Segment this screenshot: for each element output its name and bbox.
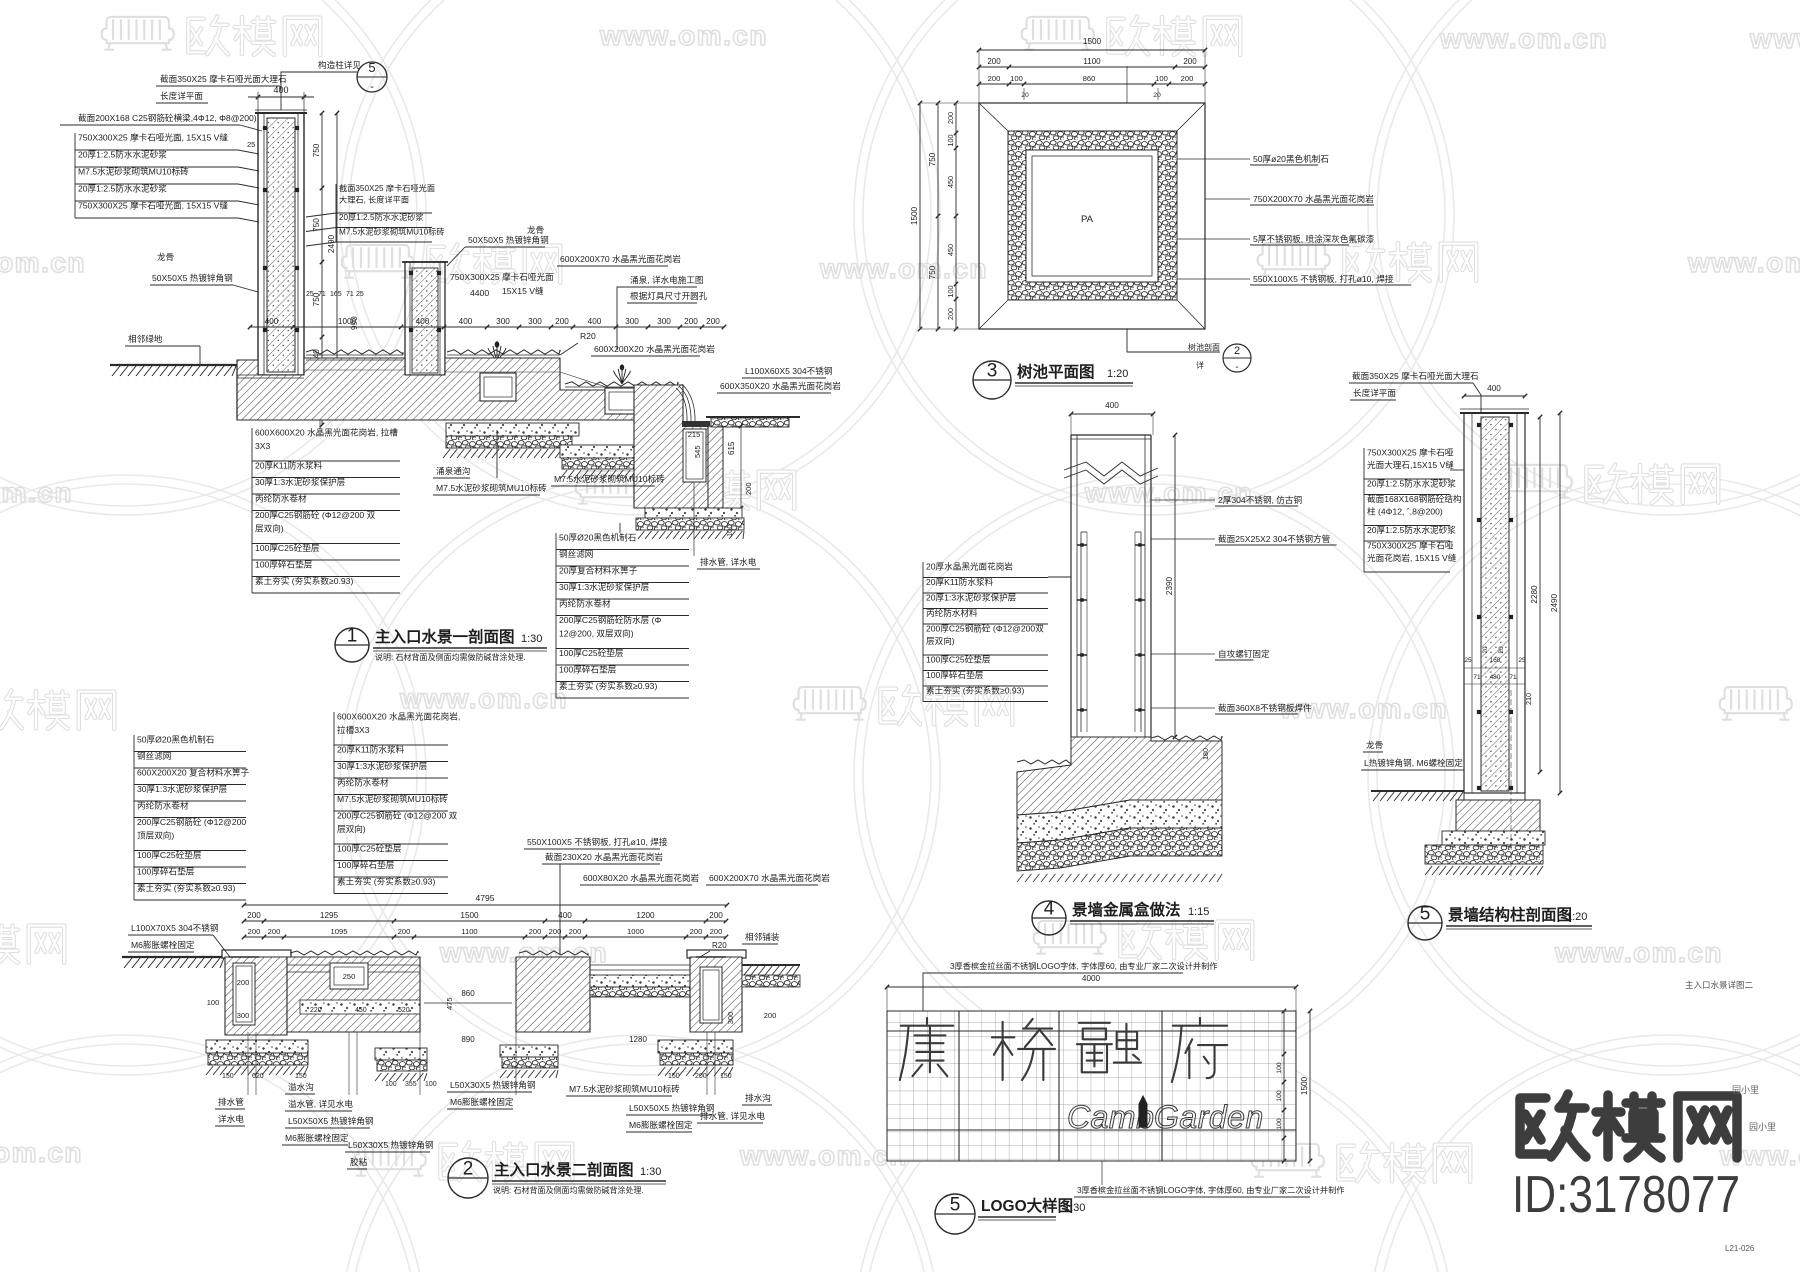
svg-text:15X15 V缝: 15X15 V缝 [502, 285, 544, 296]
svg-text:300: 300 [726, 1012, 735, 1025]
svg-text:180: 180 [1201, 748, 1210, 760]
detail-3 title [973, 361, 1011, 399]
svg-text:100: 100 [1155, 74, 1168, 83]
detail-1 foundation pad 1 concrete [446, 423, 579, 436]
svg-text:4000: 4000 [1082, 974, 1101, 983]
svg-text:480: 480 [1490, 674, 1501, 681]
logo grid panel [887, 1011, 1296, 1161]
detail-1 basin inner lines [306, 357, 405, 359]
svg-text:溢水沟: 溢水沟 [288, 1081, 314, 1092]
detail-3 section circle 2 [1223, 344, 1251, 372]
svg-text:150: 150 [222, 1073, 234, 1080]
svg-text:ID:3178077: ID:3178077 [1512, 1166, 1740, 1224]
svg-text:说明: 石材背面及侧面均需做防碱背涂处理.: 说明: 石材背面及侧面均需做防碱背涂处理. [493, 1185, 644, 1195]
svg-text:M7.5水泥砂浆砌筑MU10标砖: M7.5水泥砂浆砌筑MU10标砖 [436, 482, 547, 493]
watermark logos row 1 [102, 17, 174, 50]
svg-text:顶层双向): 顶层双向) [137, 830, 174, 841]
svg-text:园小里: 园小里 [1749, 1122, 1776, 1132]
svg-text:园小里: 园小里 [1732, 1085, 1759, 1095]
svg-text:www.om.cn: www.om.cn [819, 253, 988, 284]
detail-1 foundation pad 2 concrete [560, 445, 635, 458]
svg-text:景墙结构柱剖面图: 景墙结构柱剖面图 [1448, 905, 1572, 924]
svg-text:主入口水景一剖面图: 主入口水景一剖面图 [375, 627, 515, 646]
svg-text:2: 2 [1234, 345, 1240, 357]
detail-2 foundation pad C [500, 1045, 558, 1057]
detail-2 left drain channel [233, 963, 255, 1025]
svg-text:5厚不锈钢板, 喷涂深灰色氟碳漆: 5厚不锈钢板, 喷涂深灰色氟碳漆 [1253, 233, 1375, 244]
svg-text:450: 450 [355, 1007, 367, 1014]
svg-text:400: 400 [265, 317, 279, 326]
svg-text:200: 200 [247, 911, 261, 920]
svg-text:50厚ø20黑色机制石: 50厚ø20黑色机制石 [1253, 153, 1329, 164]
svg-text:200: 200 [987, 57, 1001, 66]
svg-text:www.om.cn: www.om.cn [1554, 937, 1723, 968]
svg-text:20: 20 [1153, 92, 1161, 99]
svg-text:www.om.cn: www.om.cn [1439, 23, 1608, 54]
svg-text:截面200X168 C25钢筋砼横梁,4Φ12, Φ8@2: 截面200X168 C25钢筋砼横梁,4Φ12, Φ8@200) [78, 112, 257, 123]
detail-4 foundation concrete band [1017, 800, 1222, 843]
svg-text:说明: 石材背面及侧面均需做防碱背涂处理.: 说明: 石材背面及侧面均需做防碱背涂处理. [375, 652, 526, 662]
svg-text:200: 200 [555, 317, 569, 326]
svg-text:1200: 1200 [636, 911, 655, 920]
svg-text:层双向): 层双向) [255, 523, 284, 534]
detail-1 waterfall curves [676, 384, 695, 424]
detail-3 pebble ring band [1008, 131, 1177, 300]
svg-text:100厚C25砼垫层: 100厚C25砼垫层 [337, 843, 402, 854]
detail-1 main dimension row [250, 326, 724, 328]
svg-text:600X600X20 水晶黑光面花岗岩, 拉槽: 600X600X20 水晶黑光面花岗岩, 拉槽 [255, 427, 398, 438]
svg-text:200: 200 [549, 927, 562, 936]
svg-text:LOGO大样图: LOGO大样图 [981, 1196, 1073, 1215]
svg-text:300: 300 [528, 317, 542, 326]
detail-1 fountain jet right [613, 368, 630, 384]
detail-4 right leaders [1151, 499, 1215, 501]
svg-text:2280: 2280 [1530, 585, 1539, 604]
svg-text:M6膨胀螺栓固定: M6膨胀螺栓固定 [629, 1119, 693, 1130]
svg-text:100厚C25砼垫层: 100厚C25砼垫层 [255, 542, 320, 553]
detail-4 inner panel lines [1080, 532, 1082, 732]
detail-1 ground line left [110, 364, 237, 366]
detail-5 core anchor markers [1477, 423, 1481, 427]
svg-text:1280: 1280 [629, 1035, 647, 1044]
detail-2 right slab [516, 957, 590, 1032]
site watermark big logo OMW [1520, 1094, 1586, 1157]
svg-text:400: 400 [1105, 401, 1119, 410]
detail-2 foundation pad D [658, 1040, 733, 1053]
svg-text:600X200X70 水晶黑光面花岗岩: 600X200X70 水晶黑光面花岗岩 [709, 872, 830, 883]
svg-text:200厚C25钢筋砼 (Φ12@200双: 200厚C25钢筋砼 (Φ12@200双 [926, 623, 1044, 634]
svg-text:750X300X25 摩卡石哑: 750X300X25 摩卡石哑 [1367, 447, 1454, 458]
logo title [935, 1194, 975, 1234]
svg-text:5: 5 [950, 1195, 961, 1216]
detail-3 left dim row2 [937, 103, 939, 329]
svg-text:Garden: Garden [1154, 1099, 1264, 1135]
svg-text:1500: 1500 [1083, 37, 1102, 46]
svg-text:200: 200 [684, 317, 698, 326]
svg-text:150: 150 [668, 1073, 680, 1080]
svg-text:丙纶防水卷材: 丙纶防水卷材 [559, 598, 611, 609]
detail-1 column wall A stone cladding lines [263, 113, 265, 375]
detail-2 title [448, 1158, 488, 1198]
detail-1 ref circle 5 [357, 62, 387, 92]
detail-1 small sump right [605, 388, 641, 414]
svg-text:355: 355 [405, 1081, 417, 1088]
detail-1 soil hatch under pad1 [443, 449, 450, 458]
svg-text:200厚C25钢筋砼 (Φ12@200 双: 200厚C25钢筋砼 (Φ12@200 双 [255, 509, 376, 520]
svg-text:L100X60X5 304不锈钢: L100X60X5 304不锈钢 [745, 365, 832, 376]
svg-text:100厚碎石垫层: 100厚碎石垫层 [137, 866, 195, 877]
detail-2 left wall coping [222, 950, 291, 958]
svg-text:溢水管, 详见水电: 溢水管, 详见水电 [288, 1098, 353, 1109]
detail-1 foundation pad 3 gravel [636, 518, 744, 530]
svg-text:890: 890 [461, 1035, 475, 1044]
detail-1 right strip wall [708, 426, 723, 508]
svg-text:20厚K11防水浆料: 20厚K11防水浆料 [926, 576, 994, 587]
svg-text:20: 20 [1482, 646, 1489, 654]
svg-text:钢丝滤网: 钢丝滤网 [559, 548, 593, 559]
svg-text:200: 200 [695, 1073, 707, 1080]
svg-text:L50X50X5 热镀锌角钢: L50X50X5 热镀锌角钢 [288, 1115, 374, 1126]
svg-text:550X100X5 不锈钢板, 打孔ø10, 焊接: 550X100X5 不锈钢板, 打孔ø10, 焊接 [527, 836, 668, 847]
svg-text:600X80X20 水晶黑光面花岗岩: 600X80X20 水晶黑光面花岗岩 [583, 872, 699, 883]
svg-text:详: 详 [1196, 360, 1204, 370]
svg-text:5: 5 [368, 60, 375, 75]
svg-text:20厚1:2.5防水水泥砂浆: 20厚1:2.5防水水泥砂浆 [1367, 478, 1456, 489]
svg-text:25: 25 [306, 291, 314, 298]
svg-text:200: 200 [1181, 74, 1194, 83]
svg-text:200: 200 [744, 482, 753, 495]
svg-text:M6膨胀螺栓固定: M6膨胀螺栓固定 [131, 939, 195, 950]
svg-text:750: 750 [928, 152, 937, 166]
svg-text:400: 400 [588, 317, 602, 326]
svg-text:涌泉, 详水电施工图: 涌泉, 详水电施工图 [630, 274, 704, 285]
svg-text:排水管: 排水管 [218, 1096, 244, 1107]
svg-text:750X300X25 摩卡石哑: 750X300X25 摩卡石哑 [1367, 540, 1454, 551]
detail-3 pebble ring outer [1008, 131, 1177, 300]
detail-5 column outer [1464, 413, 1525, 793]
detail-3 top stub line [1126, 66, 1128, 103]
svg-text:150: 150 [720, 1073, 732, 1080]
svg-text:200厚C25钢筋砼 (Φ12@200: 200厚C25钢筋砼 (Φ12@200 [137, 816, 246, 827]
svg-text:400: 400 [459, 317, 473, 326]
detail-4 foundation gravel band [1017, 828, 1222, 871]
svg-text:100厚C25砼垫层: 100厚C25砼垫层 [559, 647, 624, 658]
svg-text:L50X30X5 热镀锌角钢: L50X30X5 热镀锌角钢 [348, 1139, 434, 1150]
svg-text:4400: 4400 [470, 288, 489, 298]
detail-4 stiffener ties [1077, 544, 1087, 546]
detail-1 right drain grate top [682, 421, 710, 427]
svg-text:300: 300 [657, 317, 671, 326]
logo char rong [1077, 1023, 1141, 1072]
svg-text:50X50X5 热镀锌角钢: 50X50X5 热镀锌角钢 [468, 234, 549, 245]
detail-2 right drain channel [700, 967, 722, 1023]
svg-text:25: 25 [1518, 657, 1526, 664]
detail-5 foundation steps [1456, 800, 1540, 831]
detail-3 section mark leader [1127, 329, 1220, 352]
svg-text:20厚1:2.5防水水泥砂浆: 20厚1:2.5防水水泥砂浆 [78, 183, 167, 194]
detail-2 far right ground [742, 964, 800, 966]
detail-1 foundation pad 3 concrete [645, 508, 742, 518]
svg-text:1500: 1500 [460, 911, 479, 920]
svg-text:3厚香槟金拉丝面不锈钢LOGO字体, 字体厚60, 由专业厂: 3厚香槟金拉丝面不锈钢LOGO字体, 字体厚60, 由专业厂家二次设计并制作 [950, 961, 1217, 971]
detail-3 inner square [1032, 156, 1152, 276]
svg-text:620: 620 [252, 1073, 264, 1080]
detail-2 left ground [122, 956, 225, 958]
svg-text:20厚1:2.5防水水泥砂浆: 20厚1:2.5防水水泥砂浆 [78, 149, 167, 160]
logo char fu [1172, 1018, 1227, 1082]
svg-text:3X3: 3X3 [255, 441, 271, 451]
svg-text:71: 71 [346, 291, 354, 298]
svg-text:M7.5水泥砂浆砌筑MU10标砖: M7.5水泥砂浆砌筑MU10标砖 [554, 473, 665, 484]
detail-3 right leaders [1177, 158, 1250, 160]
detail-5 column core hatch [1481, 417, 1509, 791]
svg-text:构造柱详见: 构造柱详见 [318, 59, 361, 70]
detail-1 title [335, 628, 369, 662]
logo right dims [1283, 1011, 1285, 1161]
detail-1 adjacent pavement pebble row [711, 418, 789, 427]
svg-text:M6膨胀螺栓固定: M6膨胀螺栓固定 [285, 1132, 349, 1143]
svg-text:25: 25 [356, 291, 364, 298]
detail-1 upper pool water [306, 350, 403, 354]
svg-text:M7.5水泥砂浆砌筑MU10标砖: M7.5水泥砂浆砌筑MU10标砖 [569, 1083, 680, 1094]
svg-text:主入口水景二剖面图: 主入口水景二剖面图 [494, 1160, 634, 1179]
detail-1 fountain jet left [488, 345, 506, 362]
svg-text:1100: 1100 [1083, 57, 1101, 66]
svg-text:长度详平面: 长度详平面 [160, 90, 203, 101]
svg-text:1000: 1000 [338, 317, 357, 326]
svg-text:M7.5水泥砂浆砌筑MU10标砖: M7.5水泥砂浆砌筑MU10标砖 [337, 793, 448, 804]
detail-2 slab inner speckle band [300, 1000, 420, 1014]
svg-text:20: 20 [1021, 92, 1029, 99]
svg-text:400: 400 [1487, 384, 1501, 393]
svg-text:100: 100 [1276, 1090, 1283, 1102]
detail-1 leader to structural column note [281, 72, 357, 110]
svg-text:排水管, 详见水电: 排水管, 详见水电 [700, 1110, 765, 1121]
svg-text:475: 475 [445, 997, 454, 1010]
svg-text:丙纶防水卷材: 丙纶防水卷材 [255, 493, 307, 504]
detail-4 anchor bolts [1089, 737, 1091, 788]
svg-text:750X300X25 摩卡石哑光面: 750X300X25 摩卡石哑光面 [450, 271, 554, 282]
svg-text:20厚复合材料水箅子: 20厚复合材料水箅子 [559, 565, 638, 576]
svg-text:PA: PA [1081, 214, 1094, 225]
svg-text:600X200X70 水晶黑光面花岗岩: 600X200X70 水晶黑光面花岗岩 [560, 253, 681, 264]
svg-text:200: 200 [946, 112, 955, 124]
detail-1 lower pool water [565, 382, 678, 386]
detail-2 dim row 2 [244, 920, 726, 922]
svg-text:100: 100 [425, 1081, 437, 1088]
svg-text:L50X30X5 热镀锌角钢: L50X30X5 热镀锌角钢 [450, 1079, 536, 1090]
detail-1 lower-left stack leader [319, 420, 321, 430]
detail-4 title [1032, 901, 1066, 935]
svg-text:光面花岗岩, 15X15 V缝: 光面花岗岩, 15X15 V缝 [1367, 552, 1457, 563]
detail-5 center line [1510, 690, 1512, 880]
svg-text:860: 860 [461, 989, 475, 998]
svg-text:200: 200 [569, 927, 582, 936]
svg-text:www.om.cn: www.om.cn [1749, 23, 1800, 54]
svg-text:R20: R20 [580, 331, 596, 341]
svg-text:200: 200 [1183, 57, 1197, 66]
svg-text:www.om.cn: www.om.cn [399, 683, 568, 714]
svg-text:1095: 1095 [331, 927, 348, 936]
detail-1 column A top cap [255, 112, 307, 114]
svg-text:100: 100 [725, 524, 734, 537]
svg-text:450: 450 [946, 176, 955, 188]
svg-text:柱 (4Φ12, ˆ,8@200): 柱 (4Φ12, ˆ,8@200) [1367, 506, 1443, 517]
detail-2 sump box in slab [330, 963, 368, 989]
detail-2 foundation pad A [206, 1040, 308, 1053]
svg-text:1:20: 1:20 [1107, 368, 1128, 380]
svg-text:250: 250 [343, 972, 356, 981]
svg-text:12@200, 双层双向): 12@200, 双层双向) [559, 628, 634, 639]
svg-text:20厚K11防水浆料: 20厚K11防水浆料 [255, 460, 323, 471]
detail-1 right drain channel [683, 429, 706, 482]
svg-text:M7.5水泥砂浆砌筑MU10标砖: M7.5水泥砂浆砌筑MU10标砖 [339, 227, 445, 237]
svg-text:2390: 2390 [1165, 576, 1174, 595]
svg-text:大理石, 长度详平面: 大理石, 长度详平面 [339, 195, 409, 205]
svg-text:3: 3 [987, 361, 998, 382]
svg-text:-: - [1235, 362, 1238, 373]
detail-5 column top cap [1460, 412, 1529, 414]
svg-text:400: 400 [558, 911, 572, 920]
svg-text:钢丝滤网: 钢丝滤网 [137, 750, 171, 761]
svg-text:100厚C25砼垫层: 100厚C25砼垫层 [926, 654, 991, 665]
detail-1 small sump left [480, 373, 516, 401]
svg-text:4795: 4795 [475, 893, 494, 903]
watermark logos row 4 [0, 690, 22, 728]
svg-text:素土夯实 (夯实系数≥0.93): 素土夯实 (夯实系数≥0.93) [337, 876, 435, 887]
detail-1 middle column B [405, 262, 445, 375]
svg-text:树池平面图: 树池平面图 [1017, 362, 1095, 381]
svg-text:www.om.cn: www.om.cn [0, 1137, 83, 1168]
svg-text:200: 200 [764, 1011, 777, 1020]
svg-text:龙骨: 龙骨 [157, 251, 174, 262]
svg-text:丙纶防水卷材: 丙纶防水卷材 [337, 777, 389, 788]
svg-text:龙骨: 龙骨 [527, 224, 544, 235]
svg-text:200: 200 [248, 927, 261, 936]
detail-2 right wall coping [687, 950, 746, 958]
logo char kang [900, 1018, 953, 1080]
svg-text:3厚香槟金拉丝面不锈钢LOGO字体, 字体厚60, 由专业厂: 3厚香槟金拉丝面不锈钢LOGO字体, 字体厚60, 由专业厂家二次设计并制作 [1077, 1185, 1344, 1195]
svg-text:树池剖面: 树池剖面 [1188, 342, 1220, 352]
svg-text:L热镀锌角钢, M6螺栓固定: L热镀锌角钢, M6螺栓固定 [1364, 757, 1463, 768]
svg-text:4: 4 [1044, 899, 1055, 920]
svg-text:200: 200 [529, 927, 542, 936]
detail-1 pool basin slab [237, 358, 640, 420]
svg-text:30厚1:3水泥砂浆保护层: 30厚1:3水泥砂浆保护层 [559, 581, 650, 592]
svg-text:20厚1:2.5防水水泥砂浆: 20厚1:2.5防水水泥砂浆 [339, 212, 424, 222]
svg-text:光面大理石,15X15 V缝: 光面大理石,15X15 V缝 [1367, 459, 1454, 470]
detail-2 slab top stone band [287, 964, 420, 966]
logo grid major lines [958, 1011, 960, 1161]
svg-text:550X100X5 不锈钢板, 打孔ø10, 焊接: 550X100X5 不锈钢板, 打孔ø10, 焊接 [1253, 273, 1394, 284]
svg-text:1: 1 [347, 626, 358, 647]
svg-text:71: 71 [318, 291, 326, 298]
svg-text:www.om.cn: www.om.cn [1687, 247, 1800, 278]
detail-5 title [1408, 906, 1442, 940]
svg-text:素土夯实 (夯实系数≥0.93): 素土夯实 (夯实系数≥0.93) [137, 882, 235, 893]
svg-text:1000: 1000 [627, 927, 644, 936]
svg-text:1295: 1295 [320, 911, 339, 920]
svg-text:1:30: 1:30 [1064, 1202, 1085, 1214]
detail-5 right dims [1539, 417, 1541, 772]
svg-text:400: 400 [416, 317, 430, 326]
svg-text:1500: 1500 [1300, 1076, 1309, 1095]
svg-text:50厚Ø20黑色机制石: 50厚Ø20黑色机制石 [559, 532, 637, 543]
svg-text:200: 200 [946, 308, 955, 320]
svg-text:200: 200 [988, 74, 1001, 83]
svg-text:截面350X25 摩卡石哑光面大理石: 截面350X25 摩卡石哑光面大理石 [1352, 370, 1479, 381]
svg-text:长度详平面: 长度详平面 [1353, 387, 1396, 398]
svg-text:www.om.cn: www.om.cn [599, 20, 768, 51]
svg-text:100: 100 [1010, 74, 1023, 83]
svg-text:200: 200 [709, 911, 723, 920]
svg-text:165: 165 [330, 291, 342, 298]
svg-text:主入口水景详图二: 主入口水景详图二 [1685, 980, 1754, 990]
svg-text:截面360X8不锈钢板焊件: 截面360X8不锈钢板焊件 [1218, 702, 1312, 713]
svg-text:210: 210 [1524, 693, 1533, 705]
svg-text:100: 100 [946, 135, 955, 147]
svg-text:详水电: 详水电 [218, 1113, 244, 1124]
svg-text:71: 71 [1473, 674, 1481, 681]
svg-text:600X200X20 水晶黑光面花岗岩: 600X200X20 水晶黑光面花岗岩 [594, 343, 715, 354]
svg-text:涌泉通沟: 涌泉通沟 [436, 465, 470, 476]
svg-text:215: 215 [688, 430, 701, 439]
svg-text:71: 71 [1509, 674, 1517, 681]
svg-text:25: 25 [247, 140, 255, 149]
svg-text:520: 520 [398, 1007, 410, 1014]
svg-text:5: 5 [1420, 904, 1431, 925]
svg-text:1500: 1500 [910, 206, 919, 225]
svg-text:1:20: 1:20 [1566, 911, 1587, 923]
svg-text:截面230X20 水晶黑光面花岗岩: 截面230X20 水晶黑光面花岗岩 [545, 851, 663, 862]
detail-2 main left slab [287, 957, 420, 1032]
svg-text:100: 100 [207, 998, 220, 1007]
svg-text:丙纶防水卷材: 丙纶防水卷材 [137, 800, 189, 811]
svg-text:20厚K11防水浆料: 20厚K11防水浆料 [337, 744, 405, 755]
svg-text:20厚1:3水泥砂浆保护层: 20厚1:3水泥砂浆保护层 [926, 592, 1017, 603]
detail-2 right flat pavement layers [590, 975, 690, 987]
svg-text:1100: 1100 [461, 927, 477, 936]
detail-1 column A anchor markers [263, 126, 267, 130]
detail-3 left dim row3 [955, 103, 957, 329]
detail-2 right planter wall [690, 957, 742, 1032]
svg-text:-: - [370, 81, 374, 93]
svg-text:20厚水晶黑光面花岗岩: 20厚水晶黑光面花岗岩 [926, 561, 1013, 572]
svg-text:R20: R20 [712, 941, 727, 950]
svg-text:1:30: 1:30 [640, 1166, 661, 1178]
svg-text:截面168X168钢筋砼结构: 截面168X168钢筋砼结构 [1367, 493, 1462, 504]
detail-4 foundation top waves [1017, 760, 1071, 764]
svg-text:排水沟: 排水沟 [745, 1092, 771, 1103]
detail-1 column wall A outer [258, 113, 304, 375]
svg-text:丙纶防水材料: 丙纶防水材料 [926, 607, 978, 618]
svg-text:300: 300 [496, 317, 510, 326]
detail-1 foundation pad 1 gravel [446, 436, 572, 448]
svg-text:450: 450 [946, 244, 955, 256]
svg-text:100厚碎石垫层: 100厚碎石垫层 [559, 664, 617, 675]
svg-text:相邻绿地: 相邻绿地 [128, 333, 163, 344]
svg-text:截面25X25X2 304不锈钢方管: 截面25X25X2 304不锈钢方管 [1218, 533, 1331, 544]
svg-text:www.om.cn: www.om.cn [0, 477, 73, 508]
svg-text:1:15: 1:15 [1188, 906, 1209, 918]
svg-text:200厚C25钢筋砼防水层 (Φ: 200厚C25钢筋砼防水层 (Φ [559, 614, 662, 625]
detail-2 middle pool gap [419, 957, 421, 1032]
svg-text:30厚1:3水泥砂浆保护层: 30厚1:3水泥砂浆保护层 [337, 760, 428, 771]
detail-4 break symbol [1064, 462, 1158, 476]
svg-text:相邻铺装: 相邻铺装 [745, 931, 780, 942]
svg-text:素土夯实 (夯实系数≥0.93): 素土夯实 (夯实系数≥0.93) [559, 680, 657, 691]
svg-text:30厚1:3水泥砂浆保护层: 30厚1:3水泥砂浆保护层 [255, 476, 346, 487]
